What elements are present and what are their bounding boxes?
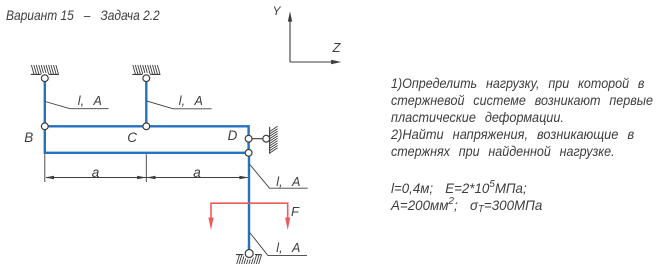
rod 1 stub over halo (44, 77, 46, 85)
statement line 4 (391, 126, 658, 143)
node label D (228, 129, 238, 143)
support S1 ground line (31, 73, 59, 75)
rod 2 (l, A) (145, 78, 147, 126)
leader line of label 3 (rod 3 upper) (250, 165, 308, 189)
white clearance halo at support S1 pin (39, 73, 50, 84)
pin D (245, 135, 252, 142)
Z axis label (333, 41, 341, 54)
Z axis (290, 61, 333, 63)
rod 3 (l, A) (248, 153, 250, 252)
rod 2 stub over halo (145, 77, 147, 85)
label 1 "l, A" on rod 1 (78, 95, 102, 108)
force frame (red) (211, 203, 288, 218)
force arrowhead left (208, 218, 213, 231)
leader line of label 1 (rod 1) (45, 102, 109, 109)
bottom support ground line (236, 254, 262, 256)
Y axis (289, 20, 291, 62)
node label C (127, 131, 137, 145)
support S2 hatch (above rod 2) (133, 65, 160, 74)
dimension arrow right (tip at rod 3) (239, 176, 248, 180)
rod 3 stub over halo (248, 246, 250, 252)
rod 1 (l, A) (44, 78, 46, 126)
leader line of label 2 (rod 2) (147, 101, 212, 109)
pin at bottom support (245, 250, 253, 258)
title "Вариант 15 - Задача 2.2" (6, 8, 160, 22)
link bar from pin D to wall pin (249, 138, 267, 140)
pin at support S2 (143, 75, 150, 82)
support S1 hatch (above rod 1) (31, 65, 58, 74)
wall pin (263, 135, 270, 142)
pin at beam lower-right corner (245, 149, 252, 156)
statement line 3 (391, 109, 655, 126)
pin C (143, 123, 150, 130)
problem statement text block (391, 75, 666, 160)
pin at support S1 (41, 75, 48, 82)
beam B-C-D (rigid bar) (45, 126, 249, 153)
force label F (291, 205, 299, 218)
bottom support hatch (237, 255, 262, 264)
dimension extension line at B (44, 154, 46, 182)
dimension arrow left (tip at B extension) (45, 176, 54, 180)
label 4 "l, A" on rod 3 lower (276, 242, 300, 255)
statement line 5 (391, 143, 652, 160)
label 2 "l, A" on rod 2 (179, 95, 203, 108)
Y axis label (273, 5, 281, 17)
data line 2: A=200мм2; sigma_T=300МПа (391, 196, 542, 215)
dimension extension line at C (145, 154, 147, 182)
right wall hatch (270, 126, 278, 153)
dimension line a+a (46, 177, 248, 179)
leader line of label 4 (rod 3 lower) (250, 233, 307, 256)
statement line 1 (391, 75, 652, 92)
Y axis arrowhead (288, 11, 292, 21)
white clearance halo at support S2 pin (141, 73, 152, 84)
pin B (41, 123, 48, 130)
white clearance halo at bottom support pin (243, 248, 255, 260)
statement line 2 (391, 92, 653, 109)
support S2 ground line (132, 73, 160, 75)
node label B (24, 131, 33, 145)
Z axis arrowhead (331, 60, 341, 64)
data line 1: l=0,4м; E=2*10^5 МПа; (391, 179, 527, 195)
dimension label a (left span) (92, 166, 100, 180)
force arrowhead right (285, 218, 290, 231)
right wall line (269, 127, 271, 154)
dimension label a (right span) (193, 166, 201, 180)
dimension arrows at centre extension (137, 176, 155, 180)
label 3 "l, A" on rod 3 upper (276, 176, 300, 189)
